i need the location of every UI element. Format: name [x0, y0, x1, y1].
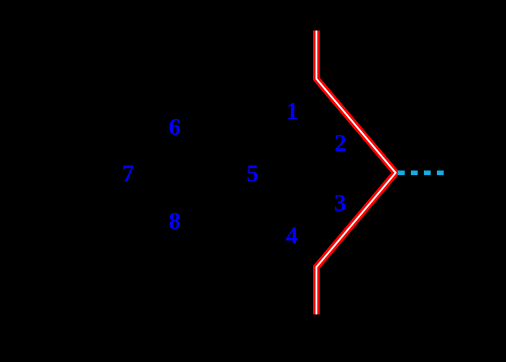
svg-text:4: 4 — [286, 223, 298, 250]
wire shock-front white core — [316, 31, 395, 315]
svg-text:1: 1 — [286, 98, 298, 125]
svg-text:5: 5 — [246, 161, 258, 188]
svg-text:8: 8 — [169, 208, 181, 235]
wire dashed axis — [398, 171, 444, 176]
svg-text:2: 2 — [334, 130, 346, 157]
wire shock-front red outer — [316, 31, 395, 315]
svg-text:3: 3 — [334, 190, 346, 217]
svg-text:7: 7 — [122, 161, 134, 188]
svg-text:6: 6 — [169, 114, 181, 141]
